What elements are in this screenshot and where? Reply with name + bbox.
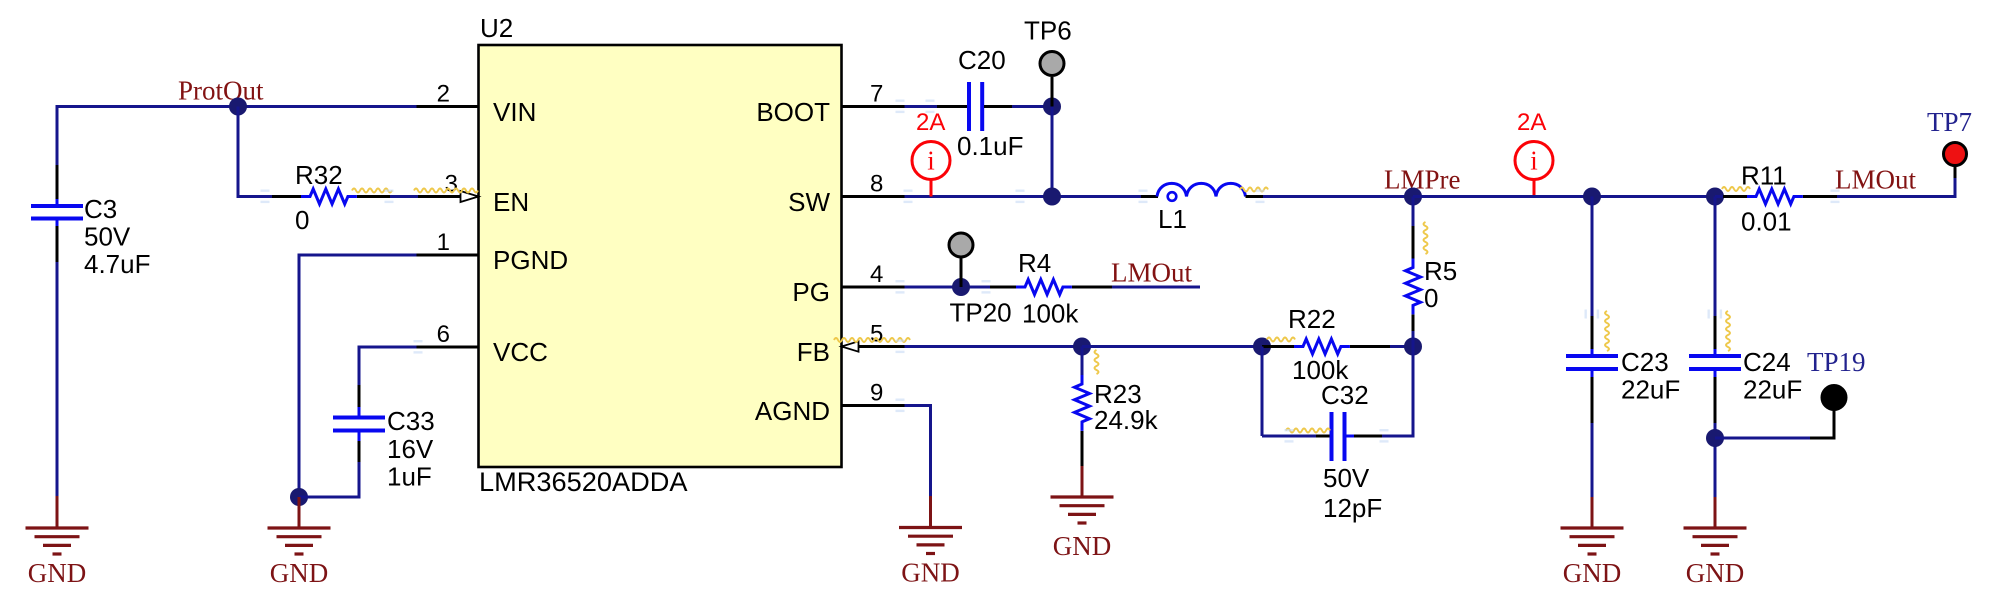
wire compile squiggle C23 [1605,311,1609,351]
test point TP7 [1927,107,1972,166]
resistor R32 [295,160,357,235]
wire C24 junction to R11 [1715,195,1723,198]
svg-text:GND: GND [1686,558,1745,588]
wire C23 bottom [1591,377,1594,499]
test point TP6 [1024,16,1072,107]
ground GND under C23 [1561,497,1624,588]
svg-text:ProtOut: ProtOut [178,76,264,106]
svg-text:L1: L1 [1158,204,1187,234]
pin 6 VCC stub [417,321,479,348]
svg-text:C33: C33 [387,406,435,436]
svg-text:22uF: 22uF [1621,375,1680,405]
wire compile squiggle C24 [1726,311,1730,351]
wire SW to L1 [905,195,1159,198]
node C23 junction [1583,188,1601,206]
IC U2 body [479,13,842,497]
svg-text:LMPre: LMPre [1384,165,1461,195]
svg-text:FB: FB [797,337,830,367]
pin 2 VIN stub [417,81,479,108]
svg-text:2A: 2A [1517,109,1546,136]
wire compile squiggle EN a [352,189,392,193]
inductor L1 [1157,183,1246,234]
svg-text:R22: R22 [1288,304,1336,334]
wire PG to R4 [905,286,1019,289]
svg-text:GND: GND [28,558,87,588]
ground GND under C24 [1684,497,1747,588]
svg-text:1uF: 1uF [387,462,432,492]
svg-text:TP19: TP19 [1807,347,1866,377]
svg-text:R4: R4 [1018,248,1051,278]
wire compile squiggle R22 left [1267,338,1295,342]
test point TP19 [1807,347,1866,438]
svg-text:R5: R5 [1424,256,1457,286]
svg-text:GND: GND [1053,531,1112,561]
resistor R4 [1016,248,1079,329]
pin 5 FB stub [842,321,905,352]
capacitor C24 [1689,347,1802,405]
svg-text:VCC: VCC [493,337,548,367]
svg-text:0: 0 [1424,283,1438,313]
wire L1 to LMPre [1246,195,1414,198]
wire R32 to EN pin [357,195,418,198]
svg-text:9: 9 [870,380,883,407]
wire C32 loop right [1347,347,1414,438]
svg-text:C20: C20 [958,45,1006,75]
pin 8 SW stub [842,171,905,198]
node C33/PGND junction [290,488,308,506]
wire junction to C33 [299,441,359,499]
svg-text:50V: 50V [1323,463,1370,493]
svg-text:TP6: TP6 [1024,16,1072,46]
pin 7 BOOT stub [842,81,905,108]
svg-text:2: 2 [437,81,450,108]
node LMPre [1384,165,1461,206]
pin 3 EN stub [417,171,479,203]
svg-text:TP20: TP20 [950,298,1012,328]
svg-text:PGND: PGND [493,245,568,275]
svg-text:16V: 16V [387,434,434,464]
svg-text:50V: 50V [84,222,131,252]
wire endpoint marks [261,100,1840,443]
svg-text:C3: C3 [84,194,117,224]
wire compile squiggle C32 left [1286,429,1330,433]
svg-text:GND: GND [1563,558,1622,588]
wire compile squiggle R5 top [1424,222,1428,254]
pin 4 PG stub [842,261,905,288]
capacitor C32 [1321,380,1382,523]
capacitor C23 [1566,347,1680,405]
pin 9 AGND stub [842,380,905,407]
svg-text:4: 4 [870,261,883,288]
wire C3 top [56,105,59,199]
svg-text:R11: R11 [1741,161,1787,191]
wire BOOT to C20 [905,105,968,108]
svg-text:TP7: TP7 [1927,107,1972,137]
wire C23 top [1591,197,1594,350]
wire C23 to C24 [1592,195,1715,198]
ground GND under C33 [268,497,331,588]
wire compile squiggle L1 right [1240,188,1268,192]
ground GND under R23 [1051,466,1114,561]
svg-text:LMR36520ADDA: LMR36520ADDA [479,466,688,497]
node TP19 junction [1706,429,1724,447]
node R22/R5 junction [1404,338,1422,356]
ground GND under C3 [26,496,89,588]
node R22 left junction [1253,338,1271,356]
svg-text:C24: C24 [1743,347,1791,377]
node C24 junction [1706,188,1724,206]
resistor R22 [1288,304,1350,385]
node TP20 junction [952,278,970,296]
wire compile squiggle R23 top [1095,350,1099,374]
svg-text:SW: SW [788,187,830,217]
svg-text:LMOut: LMOut [1111,258,1192,288]
node SW junction [1043,188,1061,206]
wire ProtOut to EN [237,107,304,197]
wire C33 to VCC [359,346,417,408]
svg-text:i: i [927,146,935,176]
wire compile squiggle FB pin [834,338,910,342]
current probe 2A (LMPre) [1515,109,1553,197]
svg-text:BOOT: BOOT [756,97,830,127]
svg-text:U2: U2 [480,13,513,43]
svg-text:VIN: VIN [493,97,536,127]
wire PGND horizontal [299,254,417,257]
svg-text:GND: GND [901,558,960,588]
wire BOOT junction down to SW [1051,107,1054,197]
wire ProtOut horizontal [57,105,417,108]
svg-text:0.01: 0.01 [1741,207,1792,237]
wire C20 to TP6 junction [984,105,1052,108]
wire R4 to LMOut stub [1072,286,1200,289]
svg-text:12pF: 12pF [1323,493,1382,523]
svg-text:LMOut: LMOut [1835,165,1916,195]
svg-text:C23: C23 [1621,347,1669,377]
wire AGND [905,404,931,496]
wire PGND vertical [298,254,301,498]
wire compile squiggle R11 left [1722,187,1750,191]
wire C24 bottom [1714,377,1717,499]
svg-text:5: 5 [870,321,883,348]
resistor R5 [1406,197,1458,347]
wire TP19 to C24 [1715,437,1836,440]
capacitor C33 [333,406,435,492]
ground GND under AGND [899,496,962,588]
svg-text:GND: GND [270,558,329,588]
wire R22 to R5 junction [1350,345,1413,348]
wire R23 junction to R22 junction [1082,345,1262,348]
svg-text:C32: C32 [1321,380,1369,410]
svg-text:4.7uF: 4.7uF [84,249,151,279]
svg-text:100k: 100k [1022,299,1079,329]
wire R11 to TP7 [1803,166,1955,198]
svg-text:i: i [1530,146,1538,176]
svg-text:EN: EN [493,187,529,217]
wire compile squiggle EN b [414,189,478,193]
svg-text:7: 7 [870,81,883,108]
capacitor C20 [957,45,1024,161]
wire C32 loop left [1262,347,1330,437]
svg-text:1: 1 [437,229,450,256]
wire LMPre to C23 [1413,195,1592,198]
resistor R23 [1075,347,1159,469]
node ProtOut [178,76,264,116]
wire R11 left lead [1723,195,1747,198]
current probe 2A (SW) [912,109,950,197]
svg-text:AGND: AGND [755,396,830,426]
wire C24 top [1714,197,1717,350]
wire R22 junction to R22 [1262,345,1296,348]
svg-text:3: 3 [445,171,458,198]
wire C3 bottom [56,226,59,498]
svg-text:8: 8 [870,171,883,198]
svg-text:R32: R32 [295,160,343,190]
svg-text:6: 6 [437,321,450,348]
svg-text:24.9k: 24.9k [1094,405,1159,435]
resistor R11 [1741,161,1803,237]
svg-text:0: 0 [295,205,309,235]
node BOOT junction [1043,98,1061,116]
svg-text:22uF: 22uF [1743,375,1802,405]
capacitor C3 [31,194,151,279]
svg-text:PG: PG [792,277,830,307]
wire FB to R23 junction [860,345,1082,348]
svg-text:0.1uF: 0.1uF [957,131,1024,161]
pin 1 PGND stub [417,229,479,256]
test point TP20 [949,233,1012,328]
node FB/R23 junction [1073,338,1091,356]
